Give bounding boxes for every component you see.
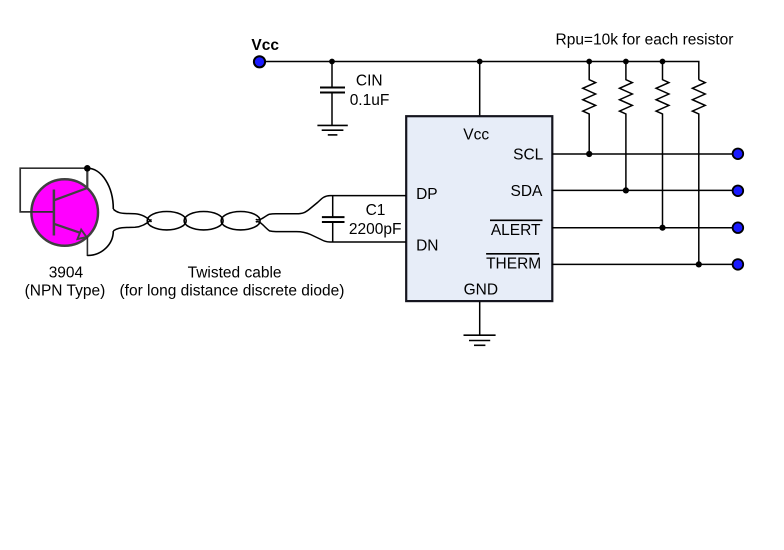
svg-text:SCL: SCL <box>513 146 544 163</box>
svg-text:DP: DP <box>416 186 438 203</box>
svg-text:ALERT: ALERT <box>491 222 541 239</box>
svg-text:(for long distance discrete di: (for long distance discrete diode) <box>120 283 345 300</box>
svg-text:DN: DN <box>416 238 438 255</box>
svg-text:Vcc: Vcc <box>463 126 489 143</box>
svg-text:GND: GND <box>464 281 498 298</box>
svg-text:Twisted cable: Twisted cable <box>188 265 282 282</box>
svg-text:THERM: THERM <box>486 255 541 272</box>
svg-text:Rpu=10k for each resistor: Rpu=10k for each resistor <box>556 32 734 49</box>
svg-text:Vcc: Vcc <box>251 37 279 54</box>
svg-text:SDA: SDA <box>511 183 544 200</box>
svg-text:0.1uF: 0.1uF <box>350 92 390 109</box>
svg-text:C1: C1 <box>366 202 386 219</box>
svg-text:3904: 3904 <box>49 265 84 282</box>
svg-text:(NPN Type): (NPN Type) <box>25 283 106 300</box>
svg-text:CIN: CIN <box>356 73 383 90</box>
svg-text:2200pF: 2200pF <box>349 221 402 238</box>
